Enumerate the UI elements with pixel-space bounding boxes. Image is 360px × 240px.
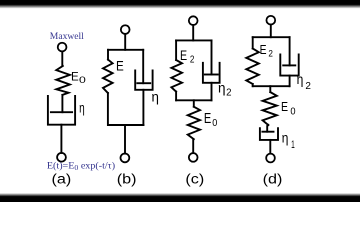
- wire left stub b: [107, 50, 109, 60]
- svg-text:0: 0: [290, 106, 296, 118]
- terminal top a: [58, 43, 67, 52]
- svg-text:E: E: [260, 42, 267, 58]
- wire left lower stub c: [175, 92, 177, 101]
- dashpot eta2 (d) cylinder: [280, 55, 298, 76]
- wire: [124, 125, 126, 154]
- svg-text:2: 2: [268, 48, 273, 59]
- dashpot eta1 (d) cylinder: [260, 128, 278, 140]
- dashpot eta (a) piston rod: [61, 95, 63, 112]
- wire: [269, 86, 271, 92]
- bottom bar d: [253, 85, 290, 87]
- wire: [270, 25, 272, 38]
- svg-text:η: η: [79, 100, 85, 116]
- wire left lower stub d: [252, 84, 254, 86]
- dashpot eta2 (c) piston plate: [205, 74, 218, 76]
- terminal top b: [121, 25, 130, 34]
- svg-text:(a): (a): [51, 172, 71, 187]
- spring E (b): [103, 60, 113, 93]
- spring E2 (c): [171, 60, 182, 92]
- wire left stub c: [175, 40, 177, 60]
- wire: [61, 52, 63, 66]
- svg-text:E: E: [180, 48, 187, 64]
- svg-text:(c): (c): [185, 172, 204, 187]
- spring E2 (d): [246, 49, 258, 85]
- svg-text:2: 2: [226, 87, 232, 98]
- svg-text:η: η: [218, 81, 226, 96]
- dashpot eta2 (c) rod: [211, 40, 213, 74]
- svg-text:(b): (b): [117, 172, 137, 187]
- dashpot eta2 (c) cylinder: [203, 63, 220, 83]
- top bar b: [108, 49, 143, 51]
- dashpot eta (b) cylinder: [135, 71, 152, 90]
- dashpot eta2 (d) piston plate: [283, 64, 295, 66]
- svg-text:E(t)=E0 exp(-t/τ): E(t)=E0 exp(-t/τ): [47, 161, 115, 172]
- wire left stub d: [252, 37, 254, 48]
- bottom bar c: [176, 99, 211, 101]
- svg-text:2: 2: [305, 81, 311, 92]
- terminal top c: [189, 16, 198, 25]
- top bar c: [176, 39, 211, 41]
- terminal bottom a: [57, 153, 66, 162]
- terminal top d: [266, 16, 275, 25]
- wire: [60, 125, 62, 153]
- svg-text:0: 0: [79, 75, 86, 85]
- dashpot eta (a) cylinder: [48, 96, 75, 125]
- bottom bar b: [108, 124, 143, 126]
- dashpot eta (b) piston plate: [137, 82, 150, 84]
- wire left lower stub b: [107, 93, 109, 125]
- wire right lower stub d: [289, 76, 291, 87]
- svg-text:0: 0: [212, 118, 217, 130]
- svg-text:E: E: [71, 70, 79, 83]
- spring E0 (d): [263, 92, 277, 125]
- top bar d: [253, 36, 290, 38]
- wire: [269, 140, 271, 154]
- svg-text:E: E: [204, 109, 212, 126]
- wire: [193, 100, 195, 106]
- svg-text:η: η: [152, 89, 159, 104]
- wire right lower stub b: [142, 90, 144, 125]
- wire: [192, 25, 194, 40]
- dashpot eta (a) piston plate: [51, 111, 72, 113]
- svg-text:η: η: [282, 130, 289, 146]
- dashpot eta1 (d) piston rod: [267, 125, 268, 132]
- dashpot eta2 (d) rod: [289, 37, 291, 65]
- spring E0 (a): [56, 66, 70, 95]
- terminal bottom b: [121, 154, 130, 163]
- svg-text:(d): (d): [263, 172, 283, 187]
- terminal bottom d: [266, 154, 275, 163]
- terminal bottom c: [189, 153, 198, 162]
- wire: [192, 139, 194, 153]
- spring E0 (c): [188, 107, 200, 140]
- wire: [124, 34, 126, 50]
- wire right lower stub c: [211, 83, 213, 101]
- svg-text:η: η: [297, 71, 304, 87]
- dashpot eta (b) rod: [142, 50, 144, 83]
- dashpot eta1 (d) piston plate: [262, 131, 273, 133]
- svg-text:E: E: [116, 57, 124, 73]
- svg-text:2: 2: [190, 54, 195, 66]
- svg-text:1: 1: [291, 138, 295, 150]
- svg-text:Maxwell: Maxwell: [50, 32, 84, 42]
- svg-text:E: E: [281, 99, 288, 114]
